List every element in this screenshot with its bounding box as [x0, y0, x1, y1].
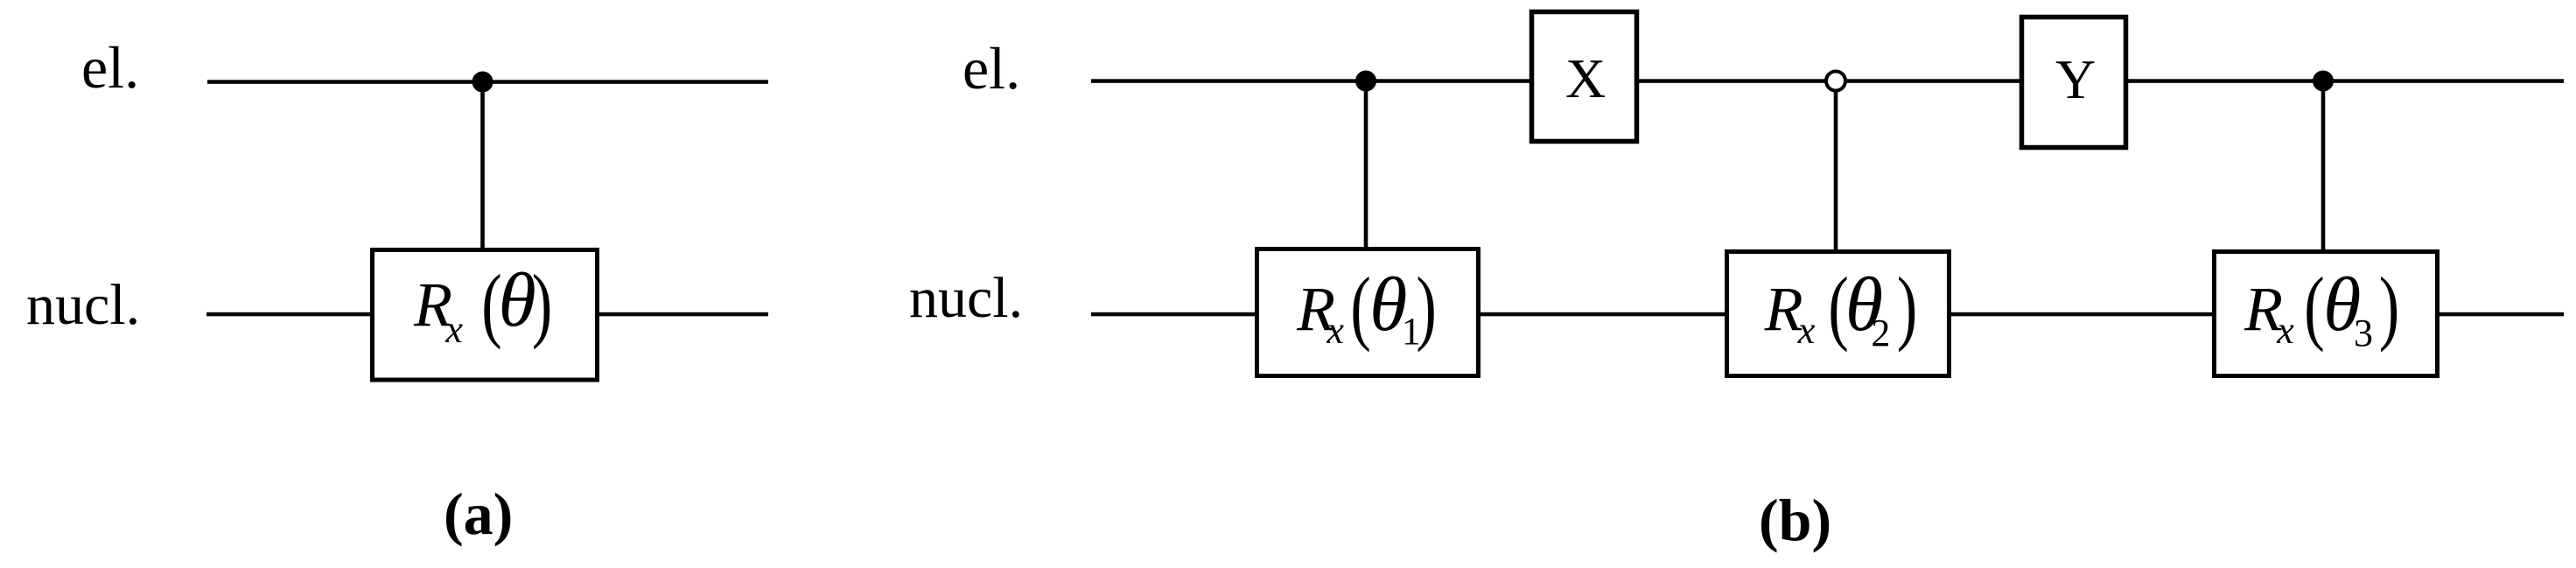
gate box Rx(theta) (a) — [373, 250, 598, 381]
wire el. segment 3 (b) — [2128, 79, 2564, 83]
gate label Rx(theta2) — [1764, 262, 1918, 354]
svg-text:Y: Y — [2055, 48, 2096, 110]
svg-text:x: x — [1797, 309, 1816, 352]
wire nucl. right (a) — [599, 312, 768, 317]
control wire 1 (b) — [1364, 81, 1368, 247]
svg-text:): ) — [2379, 262, 2399, 354]
open control circle (b) — [1826, 72, 1845, 91]
wire nucl. segment 2 (b) — [1480, 312, 1725, 317]
svg-text:x: x — [444, 308, 463, 351]
wire el. segment 1 (b) — [1091, 79, 1529, 83]
control dot (a) — [472, 72, 493, 93]
control wire (a) — [480, 81, 485, 248]
svg-text:2: 2 — [1871, 312, 1890, 354]
svg-text:): ) — [1416, 262, 1436, 354]
wire el. (a) — [207, 80, 768, 84]
control wire 2 (b) — [1834, 90, 1838, 249]
svg-text:el.: el. — [962, 35, 1020, 102]
gate box Rx(theta2) — [1727, 252, 1949, 376]
gate box X — [1532, 12, 1637, 142]
svg-text:x: x — [2276, 309, 2294, 352]
wire nucl. segment 4 (b) — [2439, 312, 2564, 317]
svg-text:(: ( — [2304, 262, 2324, 354]
gate box Y — [2022, 18, 2126, 148]
control dot 2 (b) — [2313, 71, 2334, 92]
gate label Rx(theta1) — [1296, 262, 1437, 354]
svg-text:(a): (a) — [444, 480, 513, 547]
gate box Rx(theta1) — [1257, 249, 1479, 376]
svg-text:el.: el. — [81, 34, 139, 101]
wire nucl. segment 3 (b) — [1951, 312, 2212, 317]
svg-text:3: 3 — [2354, 312, 2373, 354]
svg-text:nucl.: nucl. — [909, 266, 1023, 330]
svg-text:X: X — [1565, 47, 1606, 109]
svg-text:θ: θ — [499, 258, 536, 343]
wire nucl. segment 1 (b) — [1091, 312, 1255, 317]
control wire 3 (b) — [2321, 81, 2326, 249]
svg-text:(b): (b) — [1759, 487, 1831, 553]
gate label Rx(theta) (a) — [413, 258, 552, 351]
svg-text:): ) — [532, 259, 552, 351]
svg-text:): ) — [1897, 262, 1917, 354]
gate label Rx(theta3) — [2243, 262, 2399, 354]
wire nucl. left (a) — [206, 312, 370, 317]
wire el. segment 2 (b) — [1639, 79, 2019, 83]
gate box Rx(theta3) — [2215, 252, 2438, 376]
svg-text:x: x — [1326, 309, 1344, 352]
control dot 1 (b) — [1355, 71, 1376, 92]
svg-text:nucl.: nucl. — [26, 273, 140, 337]
svg-text:(: ( — [1350, 262, 1370, 354]
